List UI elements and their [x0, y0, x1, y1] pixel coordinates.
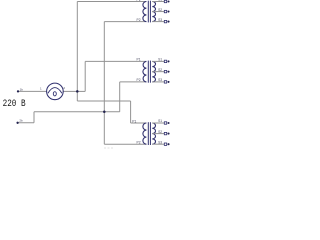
terminal square T3 S3 [164, 143, 166, 145]
terminal dot T1 S1 [167, 0, 169, 2]
terminal square T1 S1 [164, 0, 166, 2]
terminal dot T2 S1 [167, 60, 169, 62]
terminal dot T1 S3 [167, 21, 169, 23]
secondary winding T2 [152, 61, 155, 82]
secondary winding T3 [152, 123, 155, 144]
terminal X2 (source N) [16, 122, 18, 124]
wire drop to bottom P1 [130, 101, 132, 123]
svg-text:S2: S2 [158, 68, 162, 72]
svg-text:S2: S2 [158, 130, 162, 134]
primary winding T1 [143, 2, 147, 22]
wire T3 S1 tap [152, 122, 164, 124]
svg-text:S1: S1 [158, 119, 162, 123]
wire up to middle P2 [119, 82, 121, 112]
wire T2 S1 tap [152, 60, 164, 62]
terminal square T2 S2 [164, 70, 166, 72]
svg-text:P1: P1 [137, 58, 141, 62]
svg-text:P1: P1 [137, 0, 141, 2]
lamp HL1 [47, 83, 64, 100]
core T2 [147, 61, 149, 83]
wire node A up [76, 2, 78, 92]
wire T1 S2 tap [152, 11, 164, 13]
transformer T1 [77, 0, 169, 23]
svg-text:2b: 2b [19, 119, 23, 123]
wire rail to bottom P1 [77, 100, 130, 102]
wire node A down [76, 91, 78, 101]
wire up to middle P1 rail [84, 61, 86, 91]
wire T1 S3 tap [152, 21, 164, 23]
terminal square T2 S1 [164, 60, 166, 62]
secondary winding T1 [152, 2, 155, 22]
wire T3 S3 tap [152, 143, 164, 145]
transformer T2 [85, 58, 169, 84]
primary winding T3 [143, 123, 147, 144]
artifact faint mark [104, 147, 113, 149]
svg-text:S2: S2 [158, 8, 162, 12]
svg-text:S1: S1 [158, 58, 162, 62]
svg-text:220 В: 220 В [3, 97, 26, 110]
wire T1 P2 lead [104, 21, 146, 23]
svg-text:S3: S3 [158, 78, 162, 82]
terminal dot T2 S3 [167, 81, 169, 83]
core T1 [147, 1, 149, 23]
terminal square T3 S2 [164, 132, 166, 134]
terminal square T3 S1 [164, 122, 166, 124]
wire node A right [77, 90, 85, 92]
wire source N to corner [18, 122, 34, 124]
svg-text:1b: 1b [20, 87, 24, 91]
terminal dot T3 S2 [167, 133, 169, 135]
wire T2 S3 tap [152, 81, 164, 83]
wire T2 P1 lead [85, 60, 146, 62]
wire node B vertical [103, 22, 105, 145]
wire T2 S2 tap [152, 71, 164, 73]
terminal dot T2 S2 [167, 71, 169, 73]
junction node A [76, 90, 79, 93]
primary winding T2 [143, 61, 146, 82]
svg-text:P2: P2 [137, 78, 141, 82]
terminal dot T3 S1 [167, 122, 169, 124]
svg-text:P2: P2 [137, 141, 141, 145]
svg-text:S3: S3 [158, 18, 162, 22]
wire node B rail [34, 111, 120, 113]
terminal dot T1 S2 [167, 11, 169, 13]
wire corner up [33, 112, 35, 123]
wire T3 P2 lead [104, 143, 146, 145]
wire source L to lamp [18, 90, 46, 92]
core T3 [147, 122, 149, 145]
wire lamp to node A [64, 90, 78, 92]
terminal dot T3 S3 [167, 143, 169, 145]
transformer T3 [104, 119, 169, 145]
terminal square T2 S3 [164, 81, 166, 83]
svg-text:P2: P2 [137, 18, 141, 22]
wire T1 P1 lead [77, 1, 146, 3]
wire T2 P2 lead [120, 81, 147, 83]
terminal X1 (source L) [17, 90, 19, 92]
wire T1 S1 tap [152, 1, 164, 3]
wire T3 P1 lead [131, 122, 147, 124]
wire T3 S2 tap [152, 133, 164, 135]
junction node B [103, 111, 106, 114]
svg-text:P1: P1 [132, 119, 136, 123]
svg-text:S1: S1 [158, 0, 162, 2]
terminal square T1 S2 [164, 10, 166, 12]
terminal square T1 S3 [164, 20, 166, 22]
svg-text:S3: S3 [158, 140, 162, 144]
